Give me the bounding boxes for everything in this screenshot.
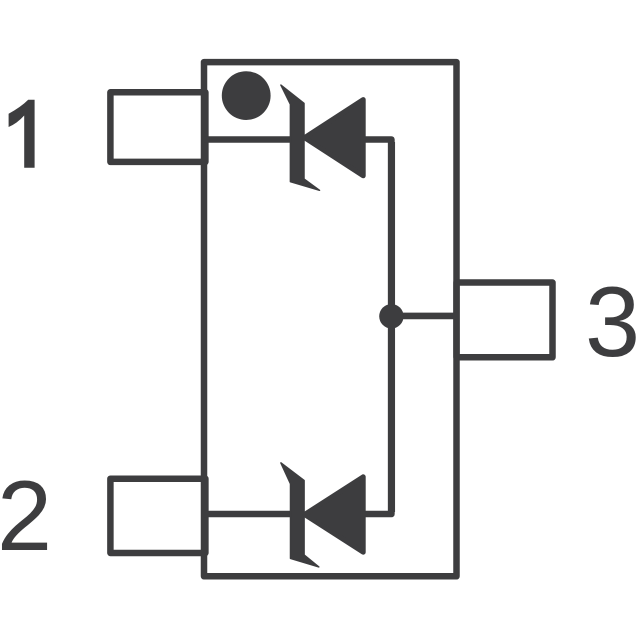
pin 3 tab [457,283,553,358]
zener diode D2 anode (triangle) [305,477,364,552]
pin 2 tab [110,479,205,553]
svg-text:3: 3 [585,266,640,377]
junction dot [379,304,403,328]
pin label 1 [9,100,35,168]
wire top diode to junction [362,140,391,515]
pin 1 tab [110,92,205,162]
zener diode D1 anode (triangle) [305,100,364,176]
package outline [204,62,457,576]
wire pin1 to top diode [204,136,298,143]
wire pin2 to bottom diode [204,511,298,518]
wire vertical (junction riser) [388,142,395,512]
svg-text:2: 2 [0,460,52,571]
pin 1 marker dot [222,71,271,120]
wire junction to pin3 [391,313,456,320]
zener diode D1 cathode (bent bar) [281,85,320,190]
zener diode D2 cathode (bent bar) [281,463,319,567]
